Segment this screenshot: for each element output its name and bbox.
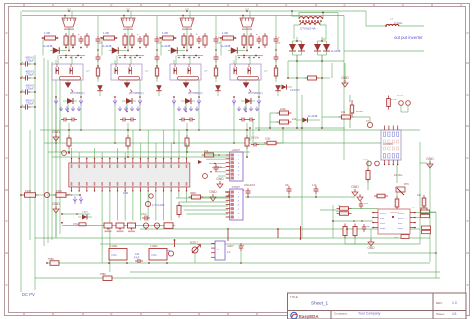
svg-text:T-RM1: T-RM1 [110, 245, 118, 248]
svg-text:RTC: RTC [404, 183, 409, 186]
svg-text:10k: 10k [341, 110, 346, 114]
svg-text:p4oy: p4oy [67, 194, 73, 197]
svg-text:EasyEDA: EasyEDA [299, 314, 319, 319]
svg-text:2IN+: 2IN+ [398, 228, 404, 230]
svg-text:GND: GND [52, 130, 60, 134]
svg-text:GND: GND [209, 190, 217, 194]
svg-text:T-RM2: T-RM2 [150, 245, 158, 248]
svg-text:U?: U? [264, 69, 268, 73]
svg-text:27uF: 27uF [141, 213, 147, 216]
svg-text:VCC+: VCC+ [398, 213, 405, 215]
svg-text:+5GD?: +5GD? [232, 148, 241, 152]
svg-text:1IN-: 1IN- [380, 218, 385, 220]
svg-text:+: + [243, 188, 245, 192]
svg-text:1.6R: 1.6R [44, 31, 50, 35]
svg-text:=17u: =17u [111, 254, 117, 257]
svg-text:+: + [22, 74, 24, 78]
svg-text:LL4148: LL4148 [331, 49, 341, 53]
svg-text:+: + [256, 32, 258, 36]
svg-text:GND: GND [351, 185, 359, 189]
svg-text:1OUT: 1OUT [380, 213, 387, 215]
svg-text:RU7588R(F): RU7588R(F) [248, 91, 263, 95]
svg-text:TITLE:: TITLE: [290, 295, 299, 299]
svg-text:U?: U? [145, 69, 149, 73]
svg-text:LL4148: LL4148 [221, 44, 231, 48]
svg-text:Company:: Company: [334, 312, 348, 316]
svg-text:1.0: 1.0 [452, 301, 457, 305]
svg-text:GND: GND [216, 177, 224, 181]
svg-text:LL4148: LL4148 [102, 44, 112, 48]
svg-text:Your Company: Your Company [358, 312, 381, 316]
svg-text:RU7588R(F): RU7588R(F) [129, 91, 144, 95]
svg-text:1.6R: 1.6R [103, 31, 109, 35]
svg-text:10/1Kw: 10/1Kw [394, 174, 403, 177]
svg-text:1.6R: 1.6R [162, 31, 168, 35]
svg-text:2OUT: 2OUT [398, 218, 405, 220]
svg-text:(-10u: (-10u [82, 212, 88, 214]
svg-text:220uF/16: 220uF/16 [244, 183, 256, 187]
svg-text:2IN-: 2IN- [398, 223, 403, 225]
svg-text:LL4148: LL4148 [161, 44, 171, 48]
svg-text:TM358N: TM358N [390, 212, 399, 214]
svg-text:12M: 12M [123, 192, 128, 195]
svg-text:+: + [137, 32, 139, 36]
svg-text:F330: F330 [56, 189, 62, 193]
svg-text:270R: 270R [391, 99, 397, 101]
svg-text:1IN+: 1IN+ [380, 223, 386, 225]
svg-text:CTX010-4A: CTX010-4A [300, 27, 316, 31]
svg-text:GND: GND [52, 202, 60, 206]
svg-text:out put inverter: out put inverter [394, 35, 423, 40]
svg-text:U?: U? [204, 69, 208, 73]
svg-text:2.2mH: 2.2mH [394, 21, 402, 25]
svg-text:F5B0: F5B0 [100, 273, 106, 276]
svg-text:BC817: BC817 [190, 241, 198, 245]
svg-text:1N/10v: 1N/10v [251, 137, 260, 140]
svg-text:RU7588R(F): RU7588R(F) [188, 91, 203, 95]
svg-text:GND: GND [367, 246, 375, 250]
svg-text:2.2k: 2.2k [312, 184, 317, 187]
svg-text:=17u: =17u [151, 254, 157, 257]
svg-text:+: + [22, 88, 24, 92]
svg-text:U?: U? [86, 69, 90, 73]
svg-text:10k: 10k [204, 149, 209, 153]
svg-text:100k: 100k [265, 138, 271, 141]
svg-text:RU7588R(F): RU7588R(F) [70, 91, 85, 95]
svg-text:DC PV: DC PV [22, 292, 35, 297]
svg-text:1uF: 1uF [366, 226, 371, 228]
svg-text:F330: F330 [25, 189, 31, 193]
svg-text:UF4007: UF4007 [290, 88, 300, 92]
svg-text:+: + [218, 35, 220, 39]
svg-text:C10: C10 [166, 250, 171, 252]
svg-text:+: + [78, 32, 80, 36]
svg-text:+: + [22, 60, 24, 64]
svg-text:1/1: 1/1 [452, 312, 457, 316]
svg-text:C?N0?: C?N0? [232, 185, 241, 189]
svg-text:GND: GND [380, 228, 385, 230]
svg-text:C?: C? [277, 41, 281, 45]
svg-text:+: + [22, 103, 24, 107]
svg-text:Sheet:: Sheet: [436, 312, 445, 316]
svg-text:47uF: 47uF [134, 257, 140, 260]
svg-text:L250R: L250R [356, 111, 363, 113]
svg-text:+: + [196, 32, 198, 36]
svg-text:+: + [278, 35, 280, 39]
svg-text:GND: GND [426, 157, 434, 161]
svg-text:C? C?: C? C? [397, 95, 404, 97]
svg-text:LL4148: LL4148 [43, 44, 53, 48]
svg-text:Sheet_1: Sheet_1 [311, 301, 329, 306]
svg-text:100k: 100k [280, 107, 286, 111]
svg-text:382K: 382K [190, 191, 196, 195]
svg-text:REV:: REV: [436, 301, 443, 305]
svg-text:GND?: GND? [227, 245, 234, 248]
svg-text:LL4148: LL4148 [308, 114, 318, 118]
svg-text:T5B0: T5B0 [48, 258, 54, 261]
svg-text:F 37uH/5R: F 37uH/5R [152, 203, 165, 207]
svg-text:1.6R: 1.6R [222, 31, 228, 35]
svg-text:C?D: C?D [363, 159, 368, 161]
